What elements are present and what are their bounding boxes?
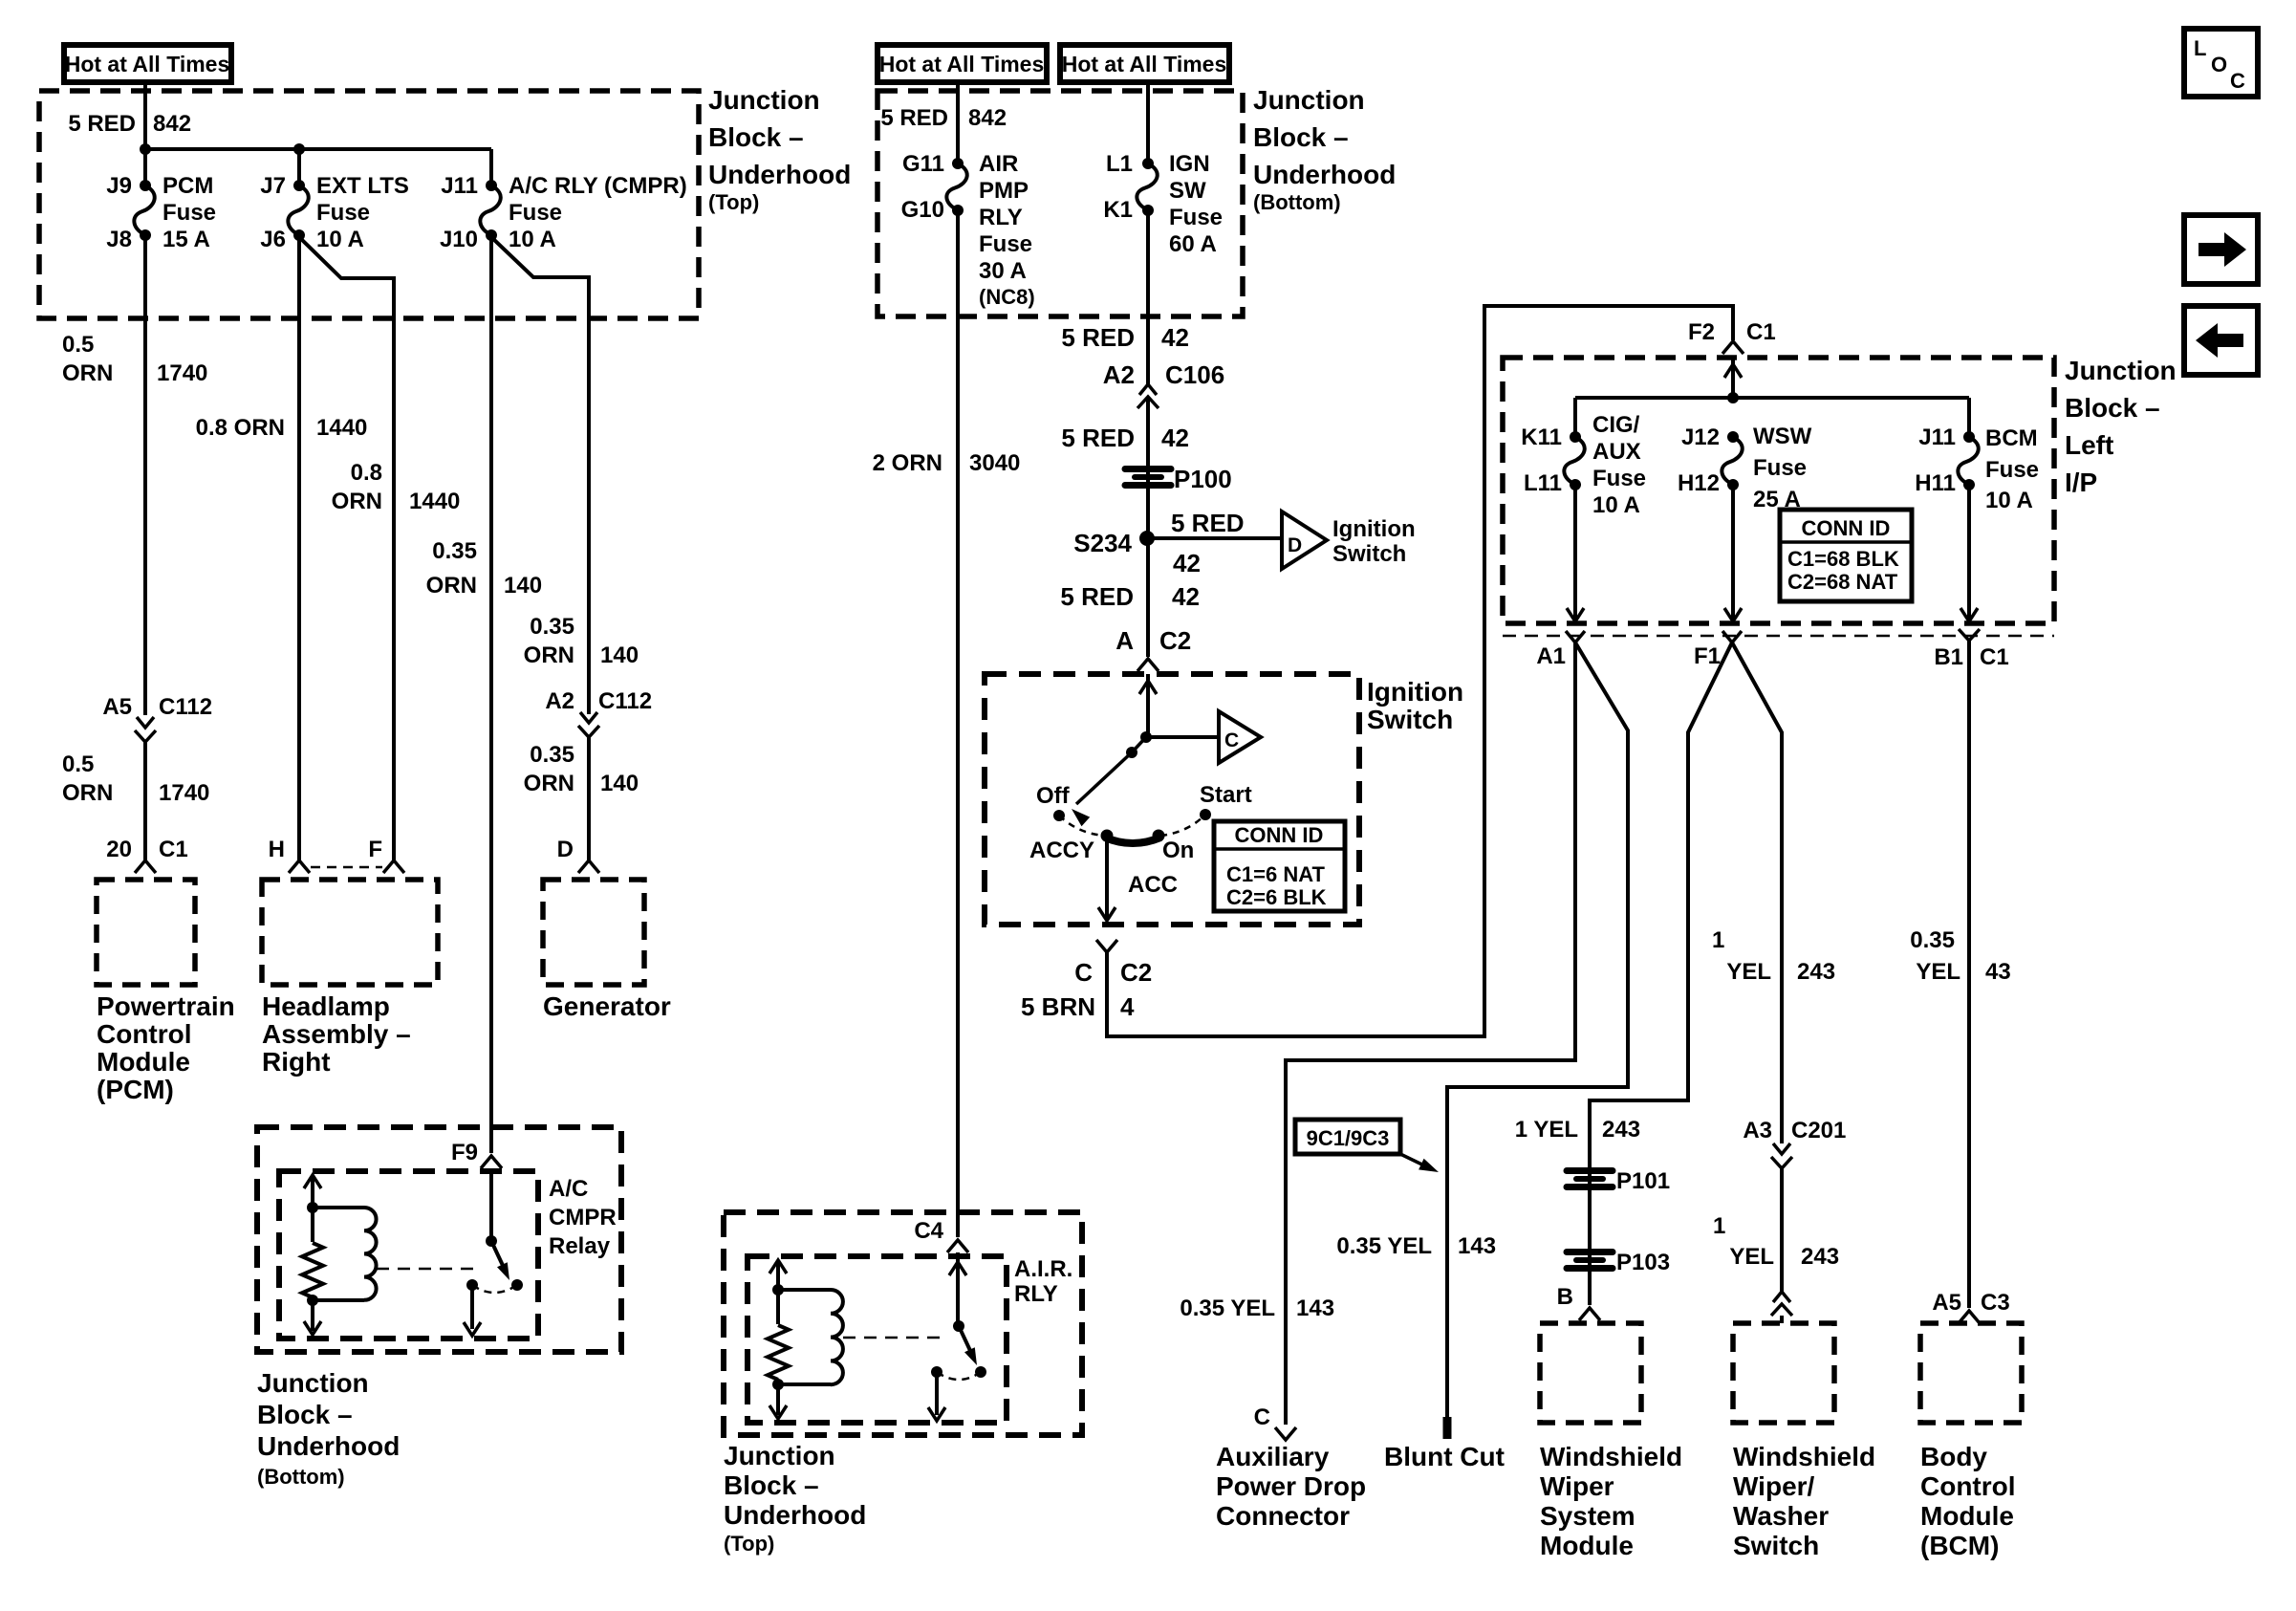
svg-text:YEL: YEL (1916, 959, 1960, 985)
svg-text:Powertrain: Powertrain (97, 991, 235, 1021)
svg-text:42: 42 (1173, 549, 1201, 577)
svg-text:5 RED: 5 RED (1171, 509, 1245, 537)
svg-text:Hot at All Times: Hot at All Times (879, 52, 1045, 76)
svg-text:A.I.R.: A.I.R. (1014, 1256, 1072, 1282)
svg-text:140: 140 (600, 642, 639, 668)
wire to triangle C (1146, 735, 1219, 739)
junction block - underhood (bottom) dashed box middle (877, 91, 1243, 316)
off-page triangle D to Ignition Switch (1282, 512, 1327, 569)
svg-text:10 A: 10 A (316, 227, 364, 252)
svg-text:5 RED: 5 RED (68, 111, 136, 137)
svg-text:C: C (1074, 958, 1093, 987)
svg-text:ORN: ORN (426, 573, 477, 599)
svg-text:Block –: Block – (2065, 393, 2160, 423)
svg-text:On: On (1162, 838, 1194, 863)
LOC legend box (2184, 29, 2258, 97)
rotor arm arrow to Off (1076, 752, 1132, 804)
svg-text:4: 4 (1120, 992, 1135, 1021)
relay resistor (302, 1243, 323, 1297)
internal dashed link H to F (311, 866, 382, 869)
inline connector P101 (1567, 1167, 1613, 1174)
svg-text:143: 143 (1458, 1233, 1496, 1259)
svg-text:ORN: ORN (62, 360, 113, 386)
wire 1 YEL 243 to washer switch (1780, 1168, 1784, 1292)
relay coil branch vertical with arrows (311, 1178, 314, 1242)
relay coil (313, 1206, 364, 1209)
svg-text:K1: K1 (1103, 197, 1133, 223)
svg-text:0.35: 0.35 (530, 614, 574, 640)
svg-text:C2: C2 (1120, 958, 1152, 987)
svg-text:ACC: ACC (1128, 872, 1178, 898)
svg-text:SW: SW (1169, 178, 1206, 204)
wire branch diagonal J6 to F column (299, 237, 394, 860)
svg-text:Block –: Block – (708, 122, 804, 152)
svg-text:Control: Control (1920, 1471, 2016, 1501)
svg-text:Right: Right (262, 1047, 331, 1077)
fuse WSW 25 A pins J12 H12 (1727, 431, 1739, 443)
wire A1 branch diagonal to blunt cut (1447, 642, 1628, 1419)
A/C CMPR Relay inner dashed box (279, 1171, 538, 1339)
bus wire left IP (1575, 396, 1969, 400)
svg-text:AIR: AIR (979, 151, 1018, 177)
svg-text:(Bottom): (Bottom) (257, 1465, 345, 1489)
svg-text:CONN ID: CONN ID (1802, 516, 1891, 540)
off-page triangle C (1219, 711, 1261, 763)
svg-text:Block –: Block – (724, 1470, 819, 1500)
svg-text:Left: Left (2065, 430, 2113, 460)
svg-text:C3: C3 (1981, 1290, 2010, 1316)
svg-text:IGN: IGN (1169, 151, 1210, 177)
svg-text:0.8: 0.8 (351, 460, 382, 486)
svg-text:C: C (1254, 1404, 1270, 1430)
A.I.R. relay coil (778, 1288, 831, 1292)
svg-text:J8: J8 (106, 227, 132, 252)
svg-text:F1: F1 (1694, 643, 1721, 669)
svg-text:CMPR: CMPR (549, 1205, 617, 1230)
svg-text:243: 243 (1602, 1117, 1640, 1143)
relay junction dots (307, 1202, 318, 1213)
wire 5 RED 42 below S234 (1146, 538, 1150, 657)
svg-text:5 RED: 5 RED (880, 105, 948, 131)
svg-text:Wiper/: Wiper/ (1733, 1471, 1815, 1501)
wire B1 to BCM (1967, 641, 1971, 1308)
rotor pivot dot (1126, 747, 1137, 758)
svg-text:L: L (2194, 36, 2206, 60)
relay switch common from F9 (489, 1168, 493, 1241)
svg-text:D: D (1288, 534, 1302, 556)
svg-text:Fuse: Fuse (1985, 457, 2039, 483)
svg-text:Module: Module (97, 1047, 190, 1077)
svg-text:Power Drop: Power Drop (1216, 1471, 1366, 1501)
wire from H11 to B1 (1967, 485, 1971, 621)
wire 2 ORN 3040 to A.I.R. relay (956, 210, 960, 1237)
feed wire into bus (1731, 358, 1735, 398)
svg-text:Generator: Generator (543, 991, 671, 1021)
svg-text:J10: J10 (440, 227, 478, 252)
Windshield Wiper Washer Switch dashed box (1733, 1323, 1834, 1423)
wire A1 branch straight down to aux power drop (1566, 631, 1585, 642)
svg-text:A5: A5 (102, 694, 132, 720)
arrow right legend box (2184, 215, 2258, 284)
power feed box: Hot at All Times (middle 2) (1060, 45, 1229, 82)
inline connector P100 (1125, 466, 1171, 472)
svg-text:A2: A2 (545, 688, 574, 714)
svg-text:60 A: 60 A (1169, 231, 1217, 257)
svg-text:1740: 1740 (159, 780, 209, 806)
svg-text:CONN ID: CONN ID (1235, 823, 1324, 847)
svg-text:F: F (368, 837, 382, 862)
svg-text:PCM: PCM (162, 173, 213, 199)
svg-text:EXT LTS: EXT LTS (316, 173, 409, 199)
svg-text:43: 43 (1985, 959, 2011, 985)
svg-text:(PCM): (PCM) (97, 1075, 174, 1104)
fuse EXT LTS 10 A pins J7 J6 (293, 180, 305, 191)
svg-text:0.35: 0.35 (530, 742, 574, 768)
wiper thick contact bar ACCY to On (1105, 838, 1160, 843)
svg-text:A: A (1116, 626, 1134, 655)
svg-text:Fuse: Fuse (162, 200, 216, 226)
branch wire 5 RED 42 to ignition switch D (1147, 536, 1282, 540)
svg-text:30 A: 30 A (979, 258, 1027, 284)
svg-text:Start: Start (1200, 782, 1252, 808)
svg-text:F2: F2 (1688, 319, 1715, 345)
svg-text:Junction: Junction (2065, 356, 2177, 385)
svg-text:L11: L11 (1524, 470, 1562, 496)
relay output wire with arrow (470, 1285, 474, 1329)
svg-text:(Top): (Top) (724, 1532, 774, 1556)
svg-text:(NC8): (NC8) (979, 285, 1035, 309)
svg-text:J11: J11 (441, 173, 478, 199)
svg-text:C4: C4 (914, 1218, 943, 1244)
relay switch contacts (466, 1279, 478, 1291)
svg-text:Hot at All Times: Hot at All Times (1062, 52, 1227, 76)
svg-text:C1: C1 (1980, 644, 2009, 670)
wire 5 BRN 4 to junction block left IP (1107, 306, 1733, 1036)
svg-text:H: H (269, 837, 285, 862)
svg-text:H12: H12 (1678, 470, 1720, 496)
svg-text:C112: C112 (159, 694, 212, 720)
junction block - underhood (top) dashed box (39, 91, 699, 318)
A.I.R. relay switch arm (959, 1326, 973, 1357)
A.I.R. relay switch common (956, 1252, 960, 1326)
svg-text:P100: P100 (1174, 465, 1232, 493)
wire 5 RED 42 second (1146, 397, 1150, 538)
svg-text:C: C (1224, 729, 1239, 751)
svg-text:0.5: 0.5 (62, 332, 94, 358)
relay control dashed link (377, 1268, 480, 1271)
A.I.R. relay resistor (768, 1325, 789, 1380)
A.I.R. relay control dashed link (843, 1337, 948, 1339)
svg-text:A/C: A/C (549, 1176, 588, 1202)
svg-text:Module: Module (1540, 1531, 1634, 1560)
svg-text:0.8 ORN: 0.8 ORN (196, 415, 285, 441)
junction block underhood bottom outer dashed box (257, 1127, 621, 1352)
svg-text:0.35: 0.35 (432, 538, 477, 564)
svg-text:C: C (2230, 69, 2245, 93)
svg-text:Assembly –: Assembly – (262, 1019, 411, 1049)
svg-text:Underhood: Underhood (257, 1431, 400, 1461)
svg-text:A3: A3 (1743, 1118, 1772, 1143)
svg-text:Connector: Connector (1216, 1501, 1350, 1531)
svg-text:C1=6 NAT: C1=6 NAT (1226, 862, 1325, 886)
svg-text:O: O (2211, 53, 2227, 76)
svg-text:Fuse: Fuse (1169, 205, 1223, 230)
svg-text:C1=68 BLK: C1=68 BLK (1787, 547, 1899, 571)
power feed box: Hot at All Times (middle 1) (877, 45, 1047, 82)
svg-text:P103: P103 (1616, 1250, 1670, 1275)
svg-text:Fuse: Fuse (979, 231, 1032, 257)
svg-text:(Top): (Top) (708, 190, 759, 214)
svg-text:C201: C201 (1791, 1118, 1846, 1143)
svg-text:AUX: AUX (1592, 439, 1641, 465)
svg-text:ACCY: ACCY (1029, 838, 1094, 863)
svg-text:B: B (1557, 1284, 1573, 1310)
svg-text:A/C RLY (CMPR): A/C RLY (CMPR) (509, 173, 687, 199)
svg-text:D: D (557, 837, 574, 862)
splice S234 (1139, 531, 1155, 546)
svg-text:(BCM): (BCM) (1920, 1531, 1999, 1560)
svg-text:ORN: ORN (62, 780, 113, 806)
A.I.R. relay output wire (935, 1372, 939, 1415)
svg-text:C112: C112 (598, 688, 652, 714)
Ignition Switch dashed box (985, 674, 1359, 925)
wire 5 RED 42 from K1 (1146, 210, 1150, 384)
fuse IGN SW 60 A pins L1 K1 (1146, 82, 1150, 163)
svg-text:Blunt Cut: Blunt Cut (1384, 1442, 1505, 1471)
junction block underhood top outer dashed box (724, 1212, 1082, 1435)
svg-text:PMP: PMP (979, 178, 1029, 204)
svg-text:Fuse: Fuse (1592, 466, 1646, 491)
svg-text:RLY: RLY (979, 205, 1023, 230)
svg-text:Headlamp: Headlamp (262, 991, 390, 1021)
svg-text:842: 842 (968, 105, 1007, 131)
A.I.R. relay contacts (931, 1366, 942, 1378)
svg-text:System: System (1540, 1501, 1635, 1531)
fuse PCM 15 A pins J9 J8 (140, 180, 151, 191)
svg-text:42: 42 (1161, 424, 1189, 452)
svg-text:20: 20 (106, 837, 132, 862)
svg-text:Switch: Switch (1332, 541, 1406, 567)
svg-text:Ignition: Ignition (1332, 516, 1416, 542)
svg-text:C1: C1 (159, 837, 188, 862)
svg-text:B1: B1 (1934, 644, 1963, 670)
svg-text:Module: Module (1920, 1501, 2014, 1531)
svg-text:Off: Off (1036, 783, 1071, 809)
svg-text:140: 140 (600, 771, 639, 796)
svg-text:Ignition: Ignition (1367, 677, 1463, 707)
svg-text:143: 143 (1296, 1295, 1334, 1321)
svg-text:Underhood: Underhood (1253, 160, 1396, 189)
svg-text:Block –: Block – (257, 1400, 353, 1429)
svg-text:2 ORN: 2 ORN (873, 450, 942, 476)
9C1/9C3 reference box with arrow (1295, 1120, 1400, 1154)
svg-text:YEL: YEL (1729, 1244, 1774, 1270)
svg-text:RLY: RLY (1014, 1281, 1058, 1307)
svg-text:(Bottom): (Bottom) (1253, 190, 1341, 214)
svg-text:Fuse: Fuse (509, 200, 562, 226)
svg-text:Junction: Junction (257, 1368, 369, 1398)
contact ACCY (1101, 830, 1114, 842)
inline connector chevrons (1771, 1304, 1792, 1316)
svg-text:L1: L1 (1106, 151, 1133, 177)
svg-text:Relay: Relay (549, 1233, 611, 1259)
svg-text:1: 1 (1712, 927, 1724, 953)
svg-text:Block –: Block – (1253, 122, 1349, 152)
svg-text:3040: 3040 (969, 450, 1020, 476)
A.I.R. relay coil branch vertical (776, 1263, 780, 1324)
A.I.R. RLY inner dashed box (747, 1256, 1007, 1423)
svg-text:0.5: 0.5 (62, 751, 94, 777)
svg-text:WSW: WSW (1753, 424, 1812, 449)
svg-text:Switch: Switch (1733, 1531, 1819, 1560)
blunt cut wire end (1443, 1417, 1452, 1439)
svg-text:Fuse: Fuse (316, 200, 370, 226)
svg-text:10 A: 10 A (1592, 492, 1640, 518)
bus wire to fuses (145, 147, 491, 151)
svg-text:G11: G11 (902, 151, 944, 177)
svg-text:G10: G10 (901, 197, 944, 223)
svg-text:J9: J9 (106, 173, 132, 199)
wire 5 RED 842 middle (956, 82, 960, 163)
svg-text:J7: J7 (260, 173, 286, 199)
svg-text:Underhood: Underhood (708, 160, 851, 189)
wire from H12 to F1 (1731, 485, 1735, 621)
wire 0.5 ORN 1740 from J8 to C112 (143, 235, 147, 715)
svg-text:Junction: Junction (1253, 85, 1365, 115)
svg-text:Auxiliary: Auxiliary (1216, 1442, 1330, 1471)
svg-text:Underhood: Underhood (724, 1500, 866, 1530)
wire from L11 to A1 (1573, 485, 1577, 621)
wire 0.8 ORN 1440 from J6 to headlamp H (297, 235, 301, 860)
svg-text:I/P: I/P (2065, 468, 2097, 497)
svg-text:Junction: Junction (708, 85, 820, 115)
wire F1 branch to wiper washer switch (1732, 642, 1782, 1143)
svg-text:5 BRN: 5 BRN (1021, 992, 1095, 1021)
svg-text:5 RED: 5 RED (1061, 323, 1135, 352)
junction dot at EXT LTS fuse branch (293, 143, 305, 155)
CONN ID table ignition switch (1214, 821, 1345, 911)
Generator dashed box (543, 880, 644, 985)
svg-text:A1: A1 (1536, 643, 1566, 669)
svg-text:C106: C106 (1165, 360, 1224, 389)
svg-text:J12: J12 (1681, 425, 1720, 450)
svg-text:J11: J11 (1918, 425, 1956, 450)
connector face thin dashed line (1503, 635, 2054, 638)
power feed box: Hot at All Times (left) (64, 45, 231, 82)
svg-text:Windshield: Windshield (1540, 1442, 1682, 1471)
CONN ID table left IP (1780, 510, 1912, 601)
svg-text:42: 42 (1161, 323, 1189, 352)
svg-text:Control: Control (97, 1019, 192, 1049)
arrow left legend box (2184, 306, 2258, 375)
svg-text:S234: S234 (1073, 529, 1132, 557)
fuse CIG/AUX 10 A pins K11 L11 (1570, 431, 1581, 443)
svg-text:CIG/: CIG/ (1592, 412, 1640, 438)
wire 5 RED 842 from hot box (143, 82, 147, 151)
svg-text:Windshield: Windshield (1733, 1442, 1875, 1471)
svg-text:K11: K11 (1521, 425, 1562, 450)
wire branch diagonal J10 to generator column (491, 237, 589, 714)
svg-text:C2=6 BLK: C2=6 BLK (1226, 885, 1327, 909)
svg-text:0.35 YEL: 0.35 YEL (1180, 1295, 1275, 1321)
svg-text:YEL: YEL (1726, 959, 1771, 985)
svg-text:P101: P101 (1616, 1168, 1670, 1194)
svg-text:1 YEL: 1 YEL (1515, 1117, 1578, 1143)
inline connector P103 (1567, 1249, 1613, 1255)
svg-text:ORN: ORN (332, 489, 382, 514)
svg-text:Junction: Junction (724, 1441, 835, 1470)
contact On (1153, 830, 1165, 842)
svg-text:140: 140 (504, 573, 542, 599)
svg-text:5 RED: 5 RED (1060, 582, 1134, 611)
svg-text:A2: A2 (1103, 360, 1135, 389)
svg-text:ORN: ORN (524, 771, 574, 796)
svg-text:H11: H11 (1915, 470, 1956, 496)
junction dot at PCM fuse branch (140, 143, 151, 155)
svg-text:5 RED: 5 RED (1061, 424, 1135, 452)
svg-text:1: 1 (1713, 1213, 1725, 1239)
fuse BCM 10 A pins J11 H11 (1963, 431, 1975, 443)
svg-text:10 A: 10 A (509, 227, 556, 252)
svg-text:0.35: 0.35 (1910, 927, 1955, 953)
svg-text:ORN: ORN (524, 642, 574, 668)
svg-text:F9: F9 (451, 1140, 478, 1165)
connector C2 pin C below ignition switch (1096, 940, 1117, 952)
svg-text:Washer: Washer (1733, 1501, 1829, 1531)
fuse AIR PMP RLY 30 A pins G11 G10 (952, 158, 964, 169)
junction block left IP dashed box (1503, 358, 2054, 623)
wire 0.5 ORN 1740 lower (143, 742, 147, 860)
Windshield Wiper System Module dashed box (1540, 1323, 1641, 1423)
svg-text:15 A: 15 A (162, 227, 210, 252)
svg-text:9C1/9C3: 9C1/9C3 (1307, 1126, 1390, 1150)
svg-text:Fuse: Fuse (1753, 455, 1807, 481)
svg-text:842: 842 (153, 111, 191, 137)
Powertrain Control Module (PCM) dashed box (97, 880, 195, 985)
dashed rotary path (1059, 816, 1105, 836)
svg-text:J6: J6 (260, 227, 286, 252)
svg-text:Wiper: Wiper (1540, 1471, 1614, 1501)
svg-text:Body: Body (1920, 1442, 1987, 1471)
Headlamp Assembly Right dashed box (262, 880, 438, 985)
ignition feed wire with up arrow (1146, 674, 1150, 737)
svg-text:0.35 YEL: 0.35 YEL (1336, 1233, 1432, 1259)
svg-text:C2: C2 (1159, 626, 1191, 655)
Body Control Module dashed box (1920, 1323, 2022, 1423)
svg-text:BCM: BCM (1985, 425, 2038, 451)
svg-text:10 A: 10 A (1985, 488, 2033, 513)
relay switch arm (491, 1241, 506, 1272)
svg-text:Switch: Switch (1367, 705, 1453, 734)
svg-text:1740: 1740 (157, 360, 207, 386)
fuse A/C RLY (CMPR) 10 A pins J11 J10 (486, 180, 497, 191)
svg-text:1440: 1440 (409, 489, 460, 514)
svg-text:C1: C1 (1746, 319, 1776, 345)
wire F1 branch to wiper system module (1722, 631, 1742, 642)
svg-text:Hot at All Times: Hot at All Times (65, 52, 230, 76)
ACC output wire (1105, 836, 1109, 918)
svg-text:1440: 1440 (316, 415, 367, 441)
wire 0.35 ORN 140 generator lower (587, 737, 591, 860)
wire 0.35 ORN 140 from J10 to relay F9 (489, 235, 493, 1153)
svg-text:42: 42 (1172, 582, 1200, 611)
svg-text:A5: A5 (1932, 1290, 1961, 1316)
svg-text:243: 243 (1797, 959, 1835, 985)
svg-text:243: 243 (1801, 1244, 1839, 1270)
svg-text:C2=68 NAT: C2=68 NAT (1787, 570, 1898, 594)
